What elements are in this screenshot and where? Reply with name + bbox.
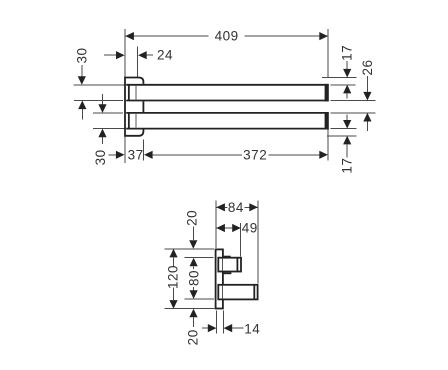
arrowhead 14 right (outside) (224, 324, 233, 332)
dim 30b top tail (102, 94, 104, 105)
arrowhead 37 left (outside) (116, 151, 125, 159)
arrowhead 80 top (190, 258, 198, 267)
ext line bar2 bottom (left) (93, 128, 124, 130)
ext line bar1 bottom (left) (74, 100, 123, 102)
svg-text:17: 17 (340, 158, 355, 174)
dim 30 top leader line (81, 65, 83, 77)
arrowhead 49 left (216, 224, 225, 232)
arrowhead 80 bottom (190, 290, 198, 299)
svg-text:26: 26 (360, 59, 375, 75)
ext line plate top (right) (322, 77, 356, 79)
ext line bar2 bottom (right) (331, 128, 357, 130)
bar 2 top edge (126, 112, 328, 114)
arm 1 end cap (236, 258, 238, 272)
ext line 49 right (240, 223, 242, 257)
dim 30 bottom tail (81, 109, 83, 120)
arrowhead 409 right (319, 32, 328, 40)
arrowhead 24 right (outside) (138, 51, 147, 59)
bar 2 end cap (right, solid) (325, 112, 329, 130)
ext line right upper (409 right) (327, 29, 329, 78)
wall plate (front view, rounded rect) (125, 78, 143, 136)
svg-text:372: 372 (243, 147, 267, 162)
dim line 84 right segment (244, 206, 257, 208)
arm 1 pivot joint (221, 259, 223, 271)
arrowhead 20b (189, 309, 197, 318)
dim 17t lower tail (346, 93, 348, 98)
dim 17t leader (346, 61, 348, 69)
ext line 37 right / 372 left (143, 140, 145, 161)
arrowhead 24 left (outside) (116, 51, 125, 59)
ext line right lower (372 right) (327, 130, 329, 161)
dim line 372 left segment (153, 154, 242, 156)
svg-text:30: 30 (93, 149, 108, 165)
arrowhead 26 upper (363, 92, 371, 101)
ext line 24 right (137, 47, 139, 77)
arrowhead 17t upper (343, 69, 351, 78)
ext line plate top (side) (165, 248, 214, 250)
arm1 holder lip top (223, 256, 231, 258)
dim 120 line upper (173, 257, 175, 266)
ext line bar1 top (left) (74, 84, 125, 86)
ext line arm2 bottom (side) (185, 298, 214, 300)
arrowhead 30 bottom (up to bar1 bottom) (78, 101, 86, 110)
arrowhead 372 right (319, 151, 328, 159)
ext line 14 left (215, 310, 217, 333)
arrowhead 84 right (249, 203, 258, 211)
dim line 372 right segment (269, 154, 320, 156)
svg-text:37: 37 (128, 147, 144, 162)
dim 14 left tail (202, 327, 208, 329)
arrowhead 37 right / 372 left (144, 151, 153, 159)
svg-text:20: 20 (186, 329, 201, 345)
bar 2 bottom edge (126, 128, 328, 130)
ext line left (409/24/37 left, x=125) (124, 29, 126, 163)
dim line 84 left segment (216, 206, 227, 208)
ext line arm1 top (side) (185, 257, 214, 259)
arrowhead 17t lower (343, 85, 351, 94)
arrowhead 14 left (outside) (208, 324, 217, 332)
svg-text:14: 14 (244, 321, 260, 336)
arrowhead 30b top (down to bar2 top) (98, 104, 106, 113)
arm1 holder lip bottom (223, 272, 232, 274)
bar 1 pivot cap (left) (128, 85, 130, 101)
arm 2 (side view, lower) (218, 285, 257, 300)
arrowhead 20t (189, 240, 197, 249)
arrowhead 17b upper (343, 120, 351, 129)
bar 1 pivot joint line (135, 86, 137, 100)
dim 80 line upper (193, 266, 195, 269)
dim 24 left tail (104, 54, 116, 56)
dim line 409 right segment (245, 35, 328, 37)
svg-text:80: 80 (187, 270, 202, 286)
bar 1 bottom edge (126, 100, 328, 102)
dim 20t leader (192, 227, 194, 241)
dim 37 left tail (109, 154, 116, 156)
towel bar 1 (front view) (126, 84, 328, 102)
ext line plate bottom (side) (165, 308, 215, 310)
dim line 409 left segment (126, 35, 209, 37)
ext line bar2 top (left) (93, 112, 123, 114)
arrowhead 409 left (125, 32, 134, 40)
arrowhead 26 lower (363, 113, 371, 122)
arrowhead 49 right (232, 224, 241, 232)
dim 17b upper tail (346, 114, 348, 120)
arrowhead 30b bottom (up to bar2 bottom) (98, 129, 106, 138)
arrowhead 120 top (169, 249, 177, 258)
svg-text:49: 49 (242, 221, 258, 236)
dim 120 line lower (173, 287, 175, 300)
bar 2 pivot cap (left) (128, 113, 130, 129)
arrowhead 84 left (216, 203, 225, 211)
svg-text:409: 409 (215, 29, 239, 44)
svg-text:24: 24 (157, 48, 173, 63)
ext line bar2 top (right) (331, 112, 376, 114)
ext line bar1 top (right) (331, 84, 356, 86)
arrowhead 30 top (down to bar1 top) (78, 76, 86, 85)
dim 26 leader (366, 76, 368, 92)
bar 1 top edge (126, 84, 328, 86)
bar 2 pivot joint line (135, 114, 137, 128)
dim 30b bottom tail (102, 137, 104, 144)
ext line bar1 bottom (right) (331, 100, 376, 102)
ext line 84 right (257, 201, 259, 284)
dim 24 right tail (147, 54, 154, 56)
arm 1 (side view, upper) (218, 258, 241, 272)
arm 2 pivot joint (221, 286, 223, 299)
dim 20b leader (193, 317, 195, 327)
dim 17b leader (346, 144, 348, 157)
dim line 49 (216, 227, 240, 229)
svg-text:120: 120 (165, 265, 180, 289)
ext line 84 left (side view) (215, 201, 217, 248)
dim 14 right tail (232, 327, 243, 329)
svg-text:84: 84 (228, 200, 244, 215)
arm 2 end cap (253, 285, 255, 300)
towel bar 2 (front view) (126, 112, 328, 130)
arrowhead 120 bottom (169, 300, 177, 309)
svg-text:30: 30 (75, 47, 90, 63)
dim 80 line lower (193, 287, 195, 290)
svg-text:17: 17 (340, 45, 355, 61)
bar 1 end cap (right, solid) (325, 84, 329, 102)
arrowhead 17b lower (343, 136, 351, 145)
wall plate (side view) (216, 249, 223, 308)
ext line 14 right (223, 310, 225, 333)
svg-text:20: 20 (185, 210, 200, 226)
ext line plate bottom (right) (327, 135, 356, 137)
dim 26 lower tail (366, 122, 368, 132)
